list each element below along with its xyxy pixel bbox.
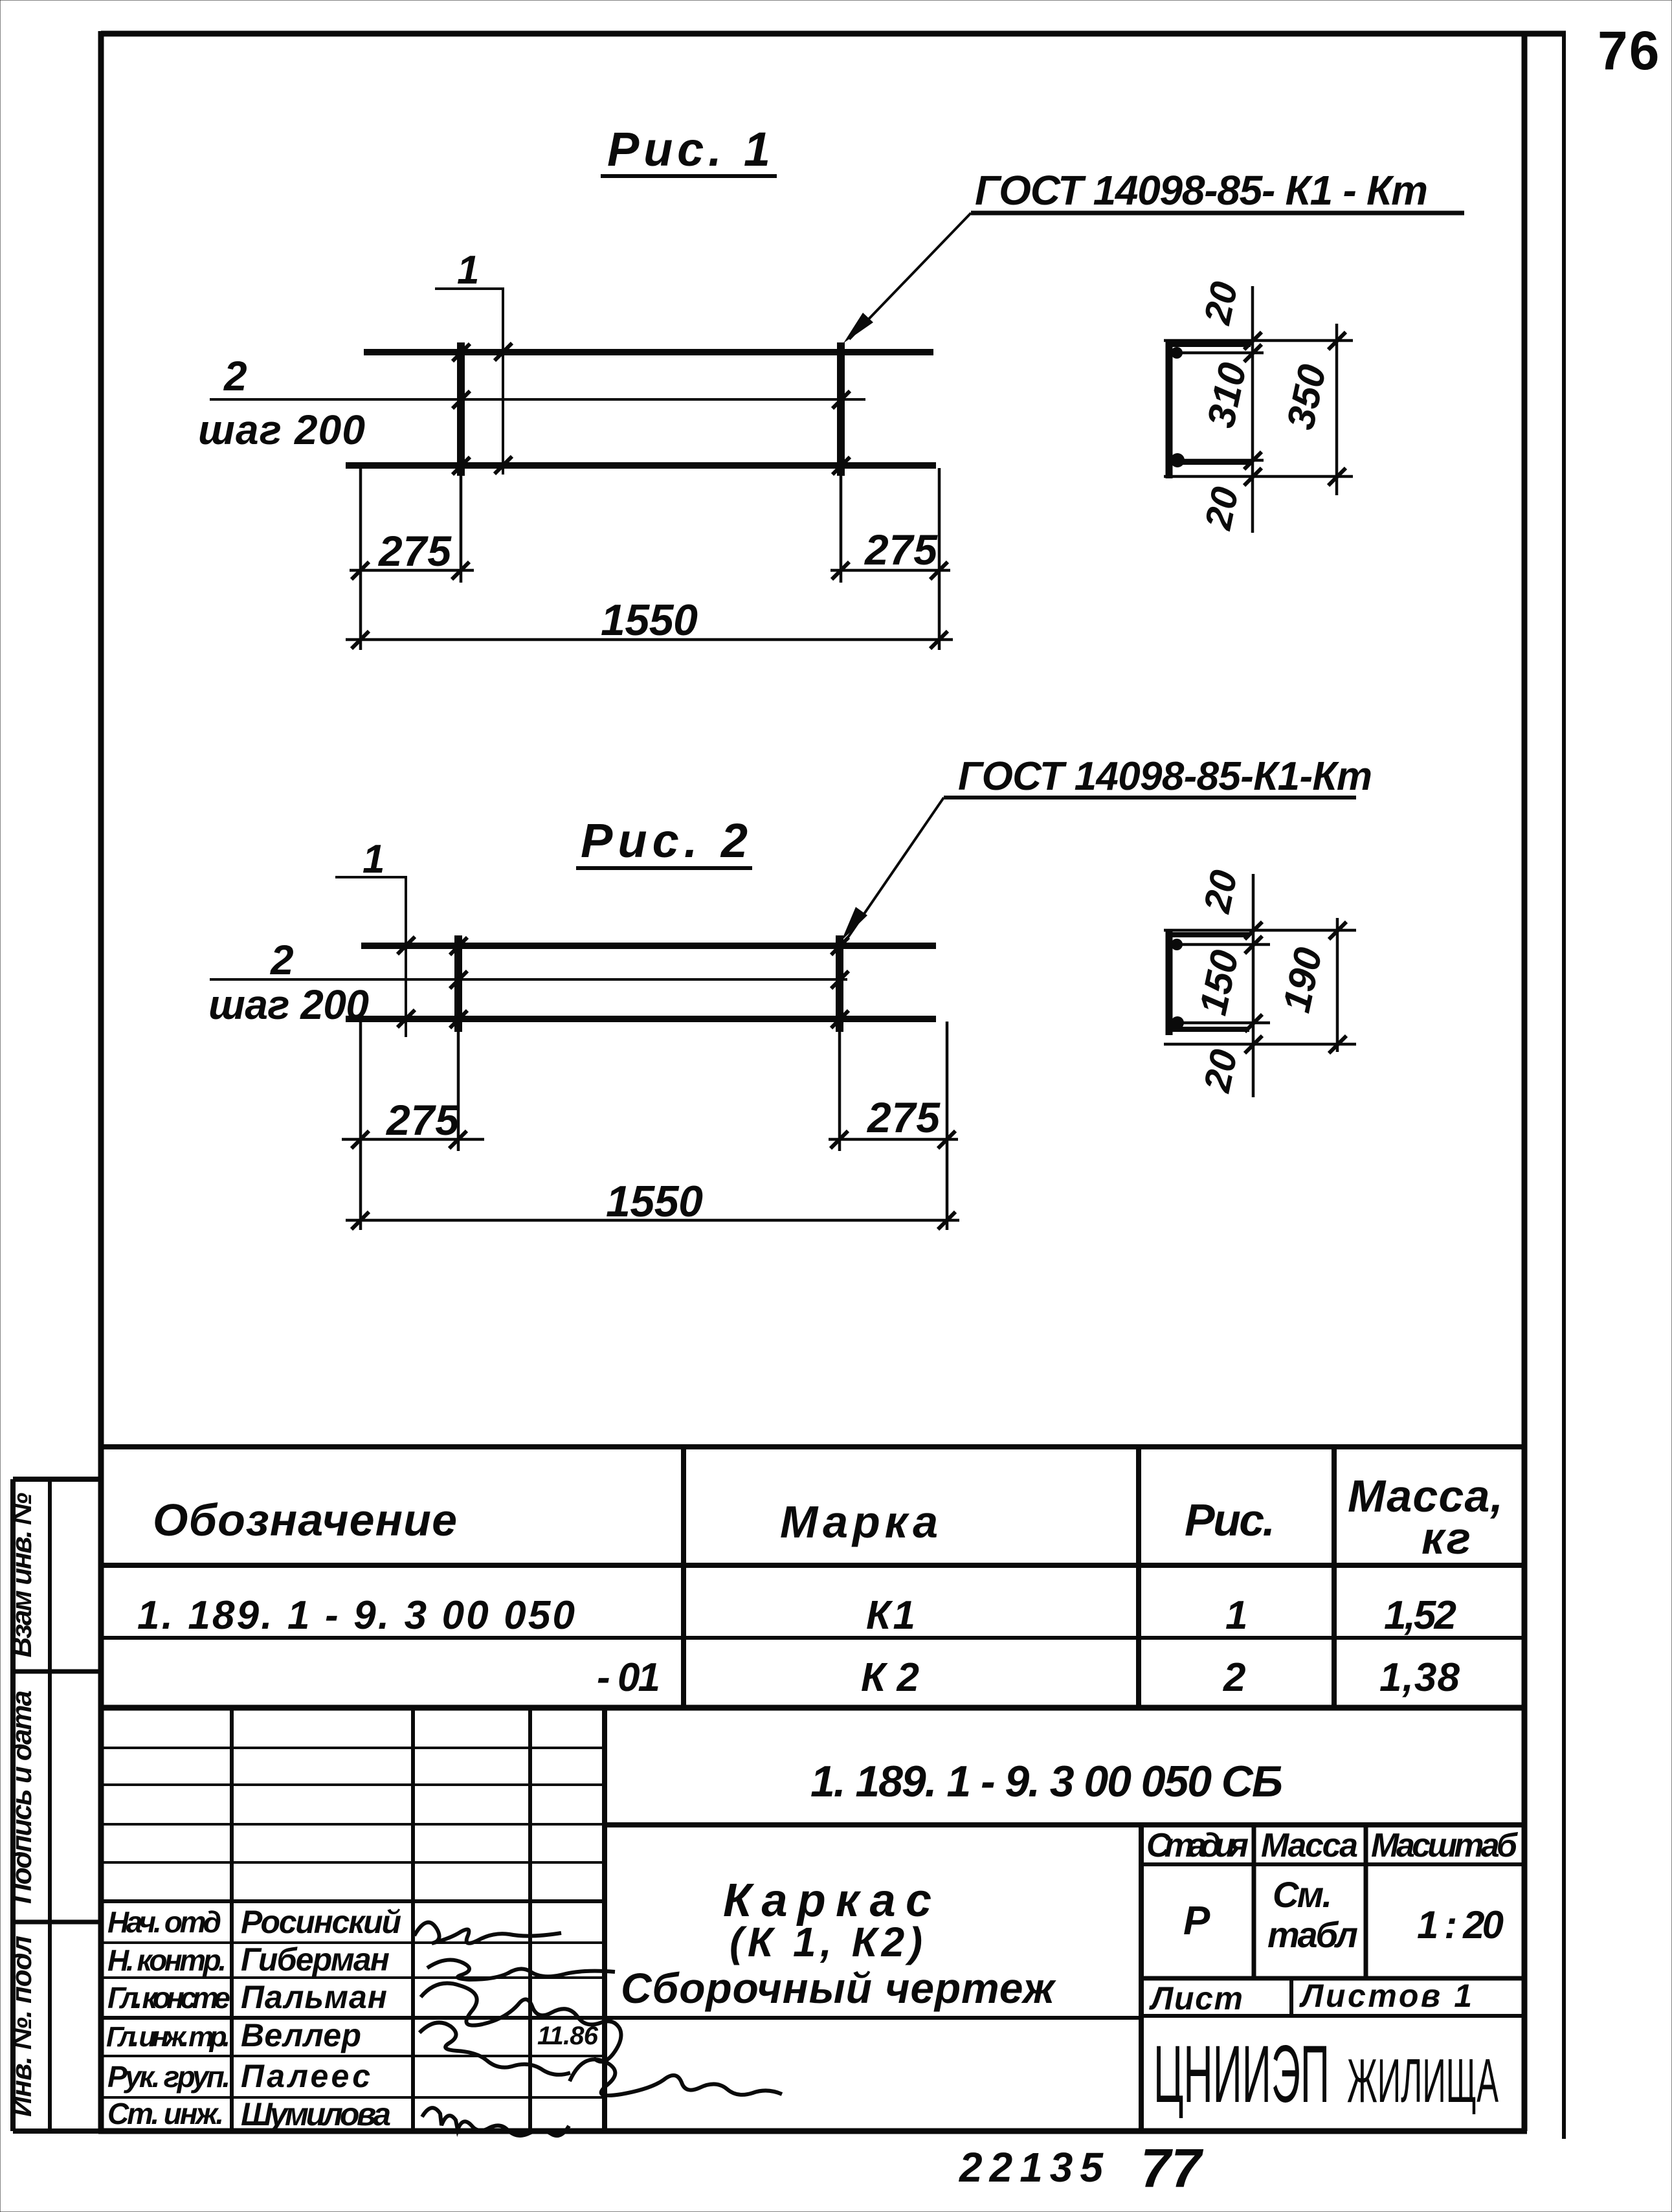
svg-text:Н. контр.: Н. контр. [107,1943,227,1977]
svg-text:1: 1 [1225,1593,1247,1638]
fig2 left stirrup [454,935,462,1032]
figure 1 title Рис. 1 [601,122,777,176]
stage mass scale boxes [1141,1825,1524,2016]
svg-text:Гл. инж. тр.: Гл. инж. тр. [106,2021,230,2053]
fig2 dimension 1550 [346,1177,959,1229]
svg-text:ГОСТ 14098-85-К1-Кт: ГОСТ 14098-85-К1-Кт [958,754,1372,799]
svg-text:350: 350 [1278,361,1334,433]
svg-text:Нач. отд: Нач. отд [107,1905,221,1939]
fig1 left stirrup [457,342,465,476]
svg-text:Марка: Марка [780,1497,938,1547]
fig1 section extension lines [1164,341,1353,476]
svg-text:ЦНИИЭП: ЦНИИЭП [1154,2029,1330,2119]
fig1 section bar dot bottom [1170,453,1185,467]
svg-text:ГОСТ 14098-85- К1 - Кт: ГОСТ 14098-85- К1 - Кт [975,167,1428,214]
title block designation cell line [605,1822,1524,1827]
svg-text:20: 20 [1196,867,1245,917]
svg-text:Подпись и дата: Подпись и дата [6,1690,38,1904]
fig1 section bar dot top [1171,347,1183,359]
fig2 section extension lines [1164,930,1356,1044]
svg-text:Р: Р [1183,1899,1210,1943]
fig2 dimension 275 right [829,1022,958,1230]
fig2 weld label ГОСТ 14098-85-К1-Кт [842,754,1372,941]
fig2 stirrup leader 2 шаг 200 [208,937,849,1028]
svg-text:2: 2 [270,937,294,983]
svg-text:275: 275 [866,1093,941,1141]
fig1 stirrup leader 2 шаг 200 [198,353,865,453]
fig2 section bar dot bottom [1171,1016,1184,1029]
fig2 cross-section stirrup bracket [1169,929,1249,1035]
svg-text:275: 275 [864,526,938,574]
svg-text:11.86: 11.86 [537,2022,599,2050]
svg-text:Росинский: Росинский [241,1904,401,1940]
svg-text:Рук. груп.: Рук. груп. [107,2060,230,2094]
parts table row 2 [597,1655,1460,1700]
left margin attachment boxes [13,1479,101,2131]
svg-text:1550: 1550 [606,1177,703,1226]
signature table names [241,1904,401,2132]
svg-text:табл: табл [1267,1914,1358,1955]
svg-text:310: 310 [1199,359,1254,431]
svg-text:1 : 20: 1 : 20 [1417,1903,1504,1947]
signature squiggle Росинский [414,1923,561,1943]
svg-text:Рис. 1: Рис. 1 [607,122,770,176]
svg-text:Инв. №. подл: Инв. №. подл [6,1936,38,2117]
svg-text:Гиберман: Гиберман [241,1941,390,1978]
fig2 top chord bar [361,943,936,949]
signature table role labels [106,1905,230,2130]
svg-text:К2: К2 [861,1655,919,1700]
mass value См табл [1267,1874,1358,1955]
fig1 section dim line 350 [1328,324,1346,495]
fig1 section dim line 20-310-20 [1244,286,1262,533]
svg-text:1: 1 [362,837,385,882]
signature squiggle Палеес [570,2059,782,2095]
organization ЦНИИЭП ЖИЛИЩА [1154,2029,1499,2119]
svg-text:150: 150 [1191,946,1247,1019]
svg-text:190: 190 [1275,944,1330,1016]
svg-text:1. 189. 1 - 9. 3 00 050: 1. 189. 1 - 9. 3 00 050 [137,1593,575,1638]
svg-text:1,52: 1,52 [1384,1593,1456,1638]
fig1 dimension 1550 [346,596,953,649]
drawing name Каркас (К1, К2) [723,1875,931,1965]
svg-text:20: 20 [1196,1046,1245,1097]
fig2 stirrup crossing ticks [450,937,849,1028]
svg-text:Палеес: Палеес [241,2058,370,2094]
svg-text:Гл. консте: Гл. консте [107,1981,230,2015]
title block signature table grid [101,1708,1141,2131]
svg-text:Шумилова: Шумилова [241,2096,391,2132]
fig1 dimension 275 left [350,468,474,650]
svg-text:Веллер: Веллер [241,2017,361,2053]
fig1 bottom chord bar [346,462,936,469]
svg-text:1: 1 [457,248,479,293]
svg-text:См.: См. [1273,1874,1332,1915]
svg-text:2: 2 [223,353,247,399]
svg-text:Листов 1: Листов 1 [1299,1978,1472,2014]
svg-text:Взам инв. №: Взам инв. № [6,1493,38,1658]
svg-text:1,38: 1,38 [1379,1655,1460,1700]
svg-text:кг: кг [1421,1513,1471,1563]
svg-text:ЖИЛИЩА: ЖИЛИЩА [1347,2046,1499,2116]
fig1 stirrup crossing ticks [452,344,850,475]
parts table row 1 [137,1593,1456,1638]
parts table grid [101,1447,1524,1708]
svg-text:Обозначение: Обозначение [153,1495,457,1545]
fig1 cross-section stirrup bracket [1169,339,1251,478]
name cell divider [1139,1825,1144,2131]
svg-text:Ст. инж.: Ст. инж. [107,2097,224,2130]
svg-text:Масса: Масса [1261,1827,1358,1864]
svg-text:Рис. 2: Рис. 2 [581,814,748,867]
signature squiggle Веллер and date [419,2022,599,2075]
fig2 bottom chord bar [346,1016,936,1022]
parts table header Масса кг [1348,1471,1503,1563]
svg-text:(К 1, К2): (К 1, К2) [730,1919,922,1965]
signature squiggle Гиберман [427,1960,615,1980]
svg-text:77: 77 [1141,2138,1203,2198]
svg-text:1. 189. 1 - 9. 3 00 050: 1. 189. 1 - 9. 3 00 050 СБ [810,1757,1283,1806]
svg-text:К1: К1 [866,1593,915,1638]
svg-text:шаг 200: шаг 200 [198,407,365,453]
svg-text:Рис.: Рис. [1185,1495,1275,1545]
fig1 right stirrup [837,342,845,476]
svg-text:2: 2 [1223,1655,1245,1700]
svg-text:22135: 22135 [959,2144,1104,2191]
fig2 right stirrup [836,935,843,1032]
fig2 section callout 1 [335,837,415,1037]
figure 2 title Рис. 2 [576,814,752,868]
fig1 top chord bar [364,349,933,355]
svg-text:Стадия: Стадия [1146,1827,1249,1864]
svg-text:275: 275 [385,1096,460,1144]
fig1 dimension 275 right [830,468,950,650]
svg-text:- 01: - 01 [597,1655,660,1700]
signature squiggle Шумилова [422,2108,569,2136]
fig2 section dim line 20-150-20 [1245,874,1262,1097]
fig1 section callout 1 [435,248,512,475]
svg-text:275: 275 [377,527,452,575]
fig2 dimension 275 left [342,1022,484,1230]
svg-text:20: 20 [1197,484,1247,534]
fig2 section bar dot top [1171,939,1183,950]
svg-text:шаг 200: шаг 200 [208,981,369,1028]
signature squiggle Пальман [421,1983,621,2062]
right margin line [1562,34,1566,2139]
svg-text:1550: 1550 [601,596,698,645]
svg-text:Пальман: Пальман [241,1979,387,2015]
fig2 section dim line 190 [1329,918,1346,1053]
svg-text:Масштаб: Масштаб [1371,1827,1519,1864]
svg-text:20: 20 [1196,278,1246,329]
svg-text:Сборочный чертеж: Сборочный чертеж [621,1964,1056,2012]
svg-text:76: 76 [1598,20,1660,81]
fig1 weld label ГОСТ 14098-85-К1-Кт [843,167,1464,343]
svg-text:Лист: Лист [1149,1980,1243,2016]
